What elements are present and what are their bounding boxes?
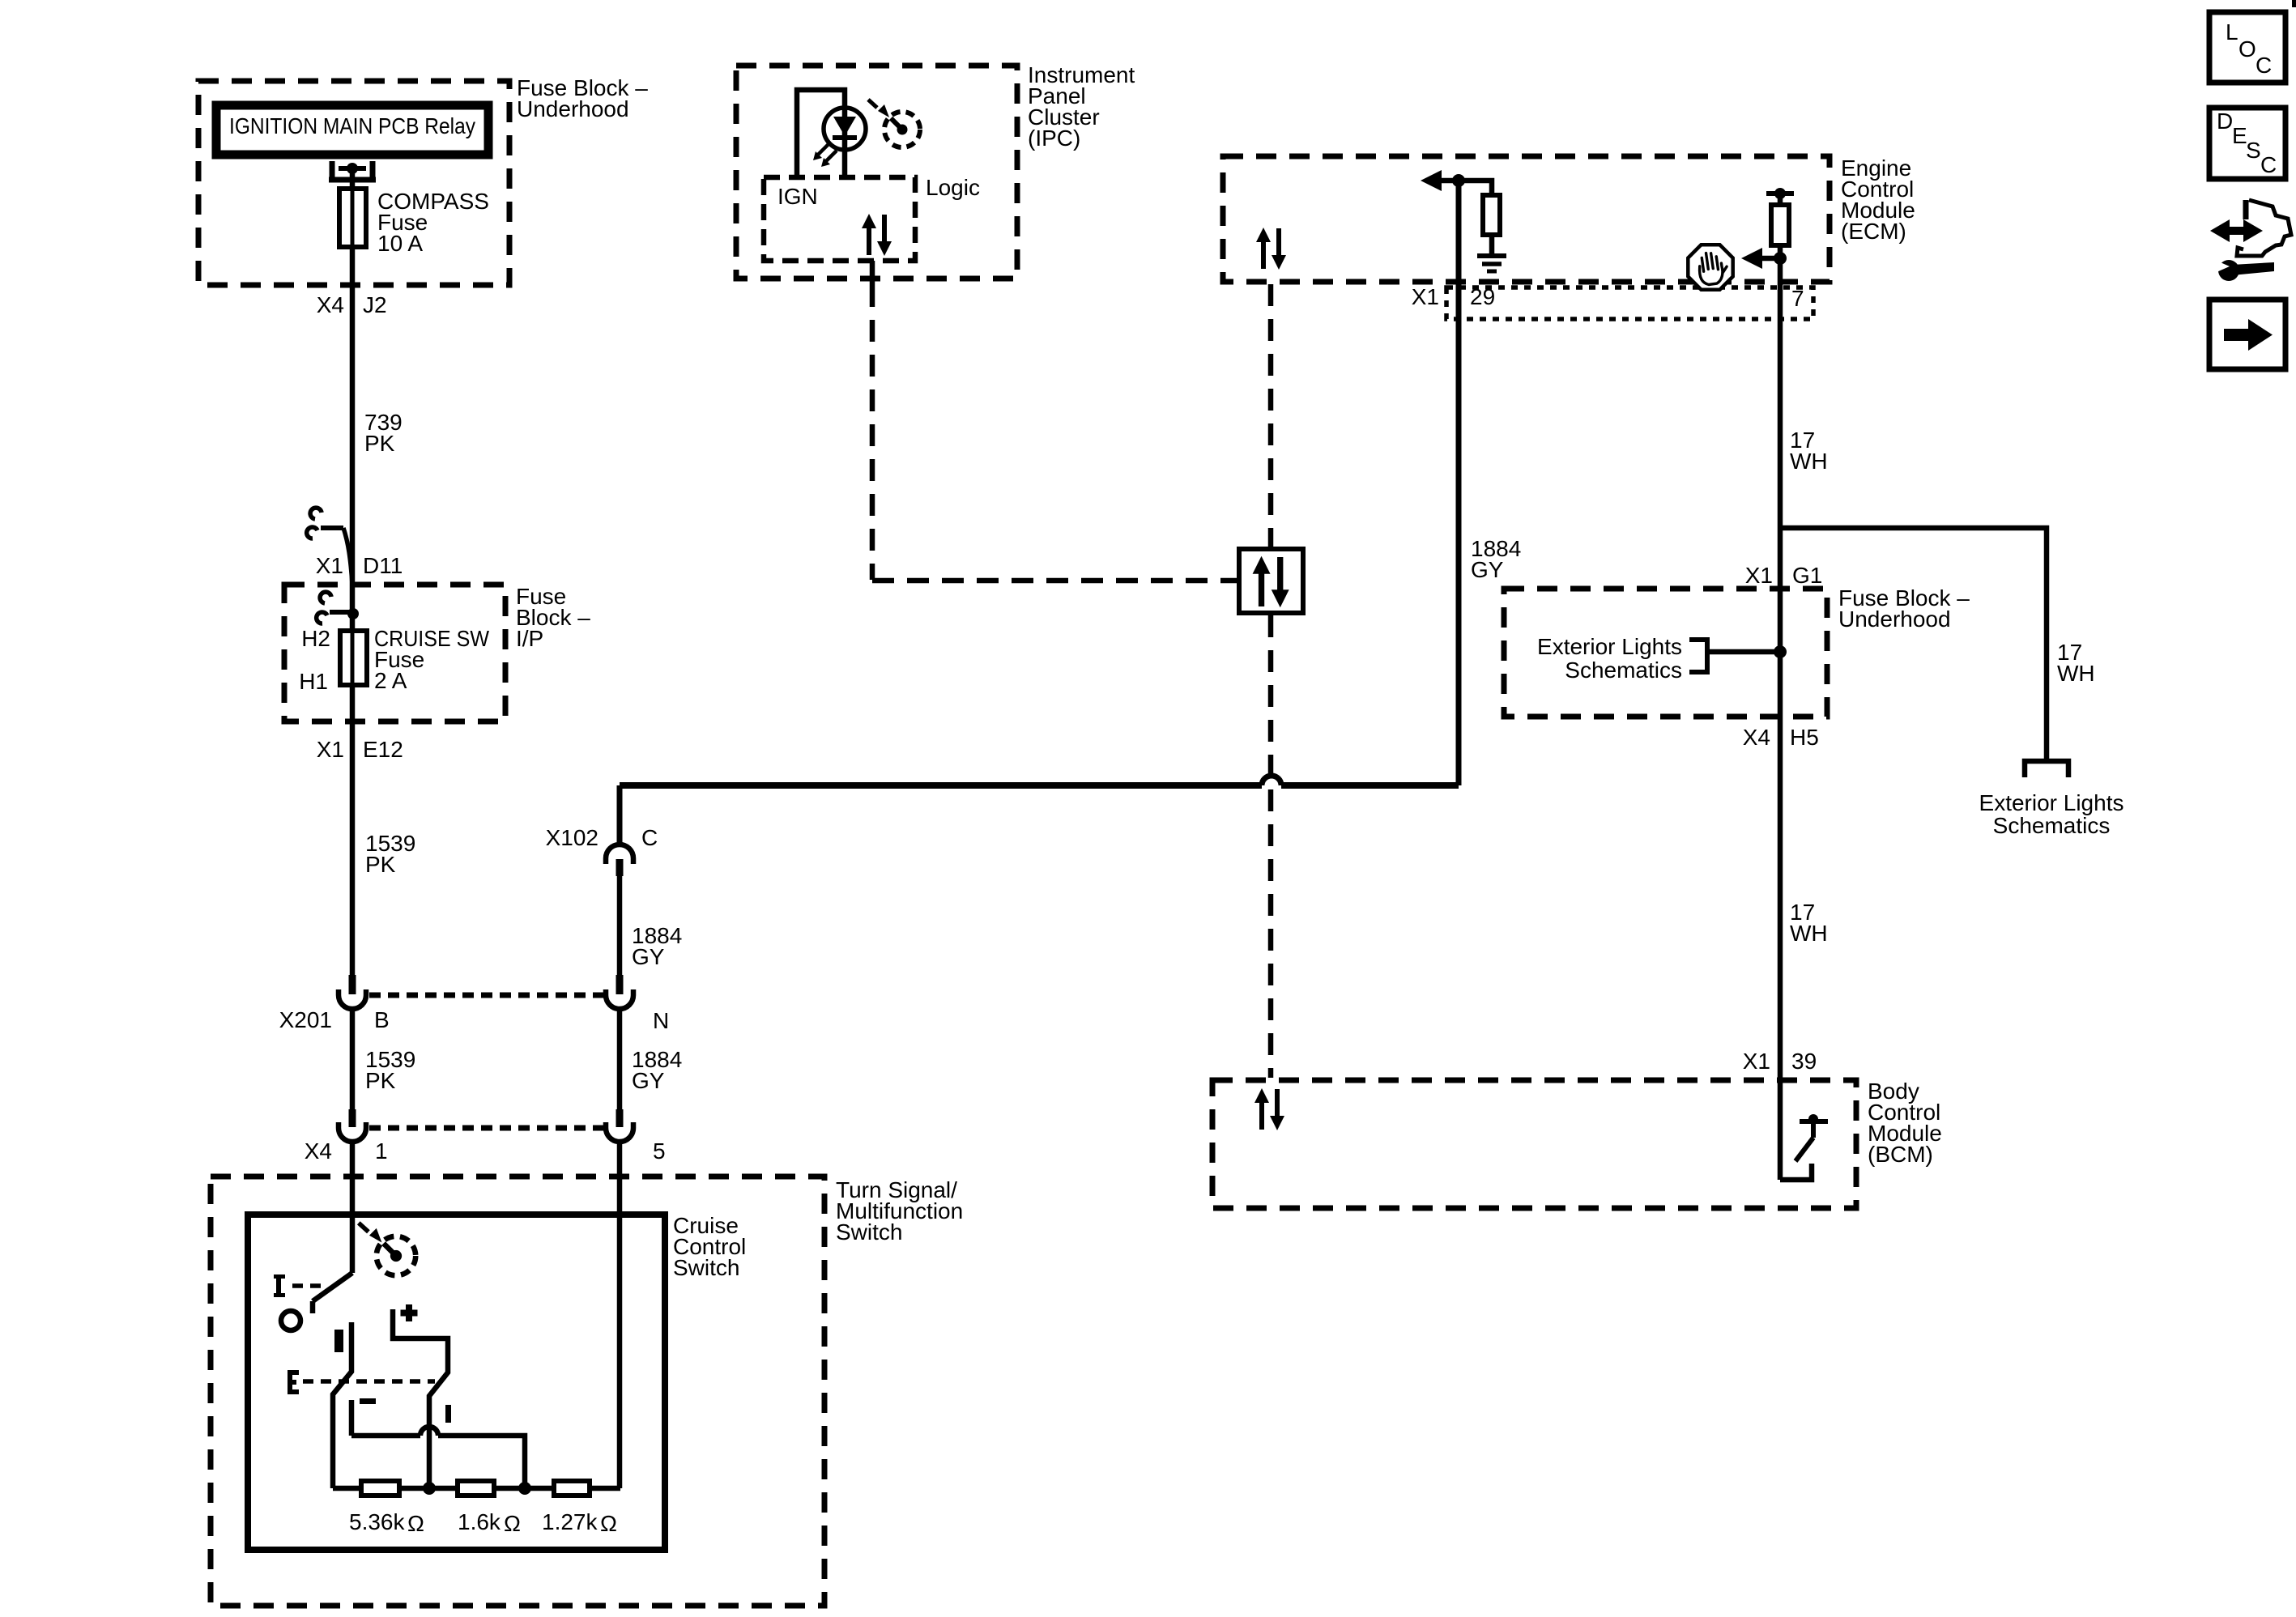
svg-text:I/P: I/P — [516, 626, 543, 651]
svg-text:(BCM): (BCM) — [1868, 1142, 1933, 1167]
svg-text:J2: J2 — [363, 292, 387, 317]
svg-text:1.27k: 1.27k — [542, 1509, 598, 1534]
svg-text:B: B — [374, 1007, 390, 1032]
svg-text:WH: WH — [2057, 661, 2095, 686]
svg-text:H2: H2 — [301, 626, 330, 651]
svg-text:Exterior Lights: Exterior Lights — [1537, 634, 1682, 659]
svg-text:Ω: Ω — [504, 1511, 521, 1536]
svg-text:D: D — [2217, 109, 2233, 134]
svg-text:D11: D11 — [363, 553, 403, 578]
svg-text:C: C — [2260, 152, 2277, 177]
svg-text:X1: X1 — [1743, 1049, 1770, 1074]
svg-text:10 A: 10 A — [377, 231, 423, 256]
svg-text:WH: WH — [1790, 449, 1828, 474]
svg-text:S: S — [2246, 138, 2261, 163]
svg-text:(IPC): (IPC) — [1028, 126, 1080, 151]
svg-text:H1: H1 — [299, 669, 328, 694]
svg-text:7: 7 — [1791, 286, 1804, 311]
svg-text:29: 29 — [1470, 284, 1495, 309]
svg-text:39: 39 — [1791, 1049, 1817, 1074]
svg-text:C: C — [641, 825, 658, 850]
svg-text:X1: X1 — [316, 553, 343, 578]
svg-text:E12: E12 — [363, 737, 403, 762]
svg-text:X4: X4 — [305, 1138, 332, 1164]
svg-text:Schematics: Schematics — [1565, 657, 1682, 683]
svg-text:1.6k: 1.6k — [458, 1509, 501, 1534]
svg-text:Underhood: Underhood — [517, 96, 629, 121]
svg-text:X4: X4 — [1743, 725, 1770, 750]
svg-text:Exterior Lights: Exterior Lights — [1979, 790, 2124, 815]
svg-text:2 A: 2 A — [374, 668, 407, 693]
svg-text:X201: X201 — [279, 1007, 332, 1032]
svg-text:GY: GY — [632, 1068, 665, 1093]
svg-text:PK: PK — [365, 852, 396, 877]
svg-text:(ECM): (ECM) — [1841, 219, 1906, 244]
svg-text:X1: X1 — [1412, 284, 1439, 309]
svg-text:X1: X1 — [317, 737, 344, 762]
svg-text:Underhood: Underhood — [1838, 606, 1951, 632]
svg-text:GY: GY — [632, 944, 665, 969]
svg-text:G1: G1 — [1792, 563, 1822, 588]
svg-text:PK: PK — [365, 1068, 396, 1093]
svg-text:C: C — [2256, 53, 2272, 78]
svg-text:WH: WH — [1790, 921, 1828, 946]
svg-text:Ω: Ω — [407, 1511, 424, 1536]
svg-text:L: L — [2226, 19, 2238, 45]
svg-text:Switch: Switch — [673, 1255, 739, 1280]
svg-text:E: E — [2232, 123, 2247, 148]
svg-text:Switch: Switch — [836, 1219, 902, 1245]
svg-text:PK: PK — [364, 431, 395, 456]
svg-text:X4: X4 — [317, 292, 344, 317]
svg-text:5: 5 — [653, 1138, 666, 1164]
svg-text:Schematics: Schematics — [1993, 813, 2111, 838]
svg-text:X1: X1 — [1745, 563, 1773, 588]
svg-text:1: 1 — [375, 1138, 388, 1164]
svg-text:O: O — [2238, 36, 2256, 62]
svg-text:N: N — [653, 1008, 669, 1033]
svg-text:Ω: Ω — [600, 1511, 617, 1536]
svg-text:IGN: IGN — [777, 184, 818, 209]
svg-text:5.36k: 5.36k — [349, 1509, 405, 1534]
svg-text:GY: GY — [1471, 557, 1504, 582]
svg-text:IGNITION MAIN PCB Relay: IGNITION MAIN PCB Relay — [229, 113, 475, 138]
svg-text:Logic: Logic — [926, 175, 980, 200]
svg-text:X102: X102 — [546, 825, 598, 850]
svg-text:H5: H5 — [1790, 725, 1819, 750]
